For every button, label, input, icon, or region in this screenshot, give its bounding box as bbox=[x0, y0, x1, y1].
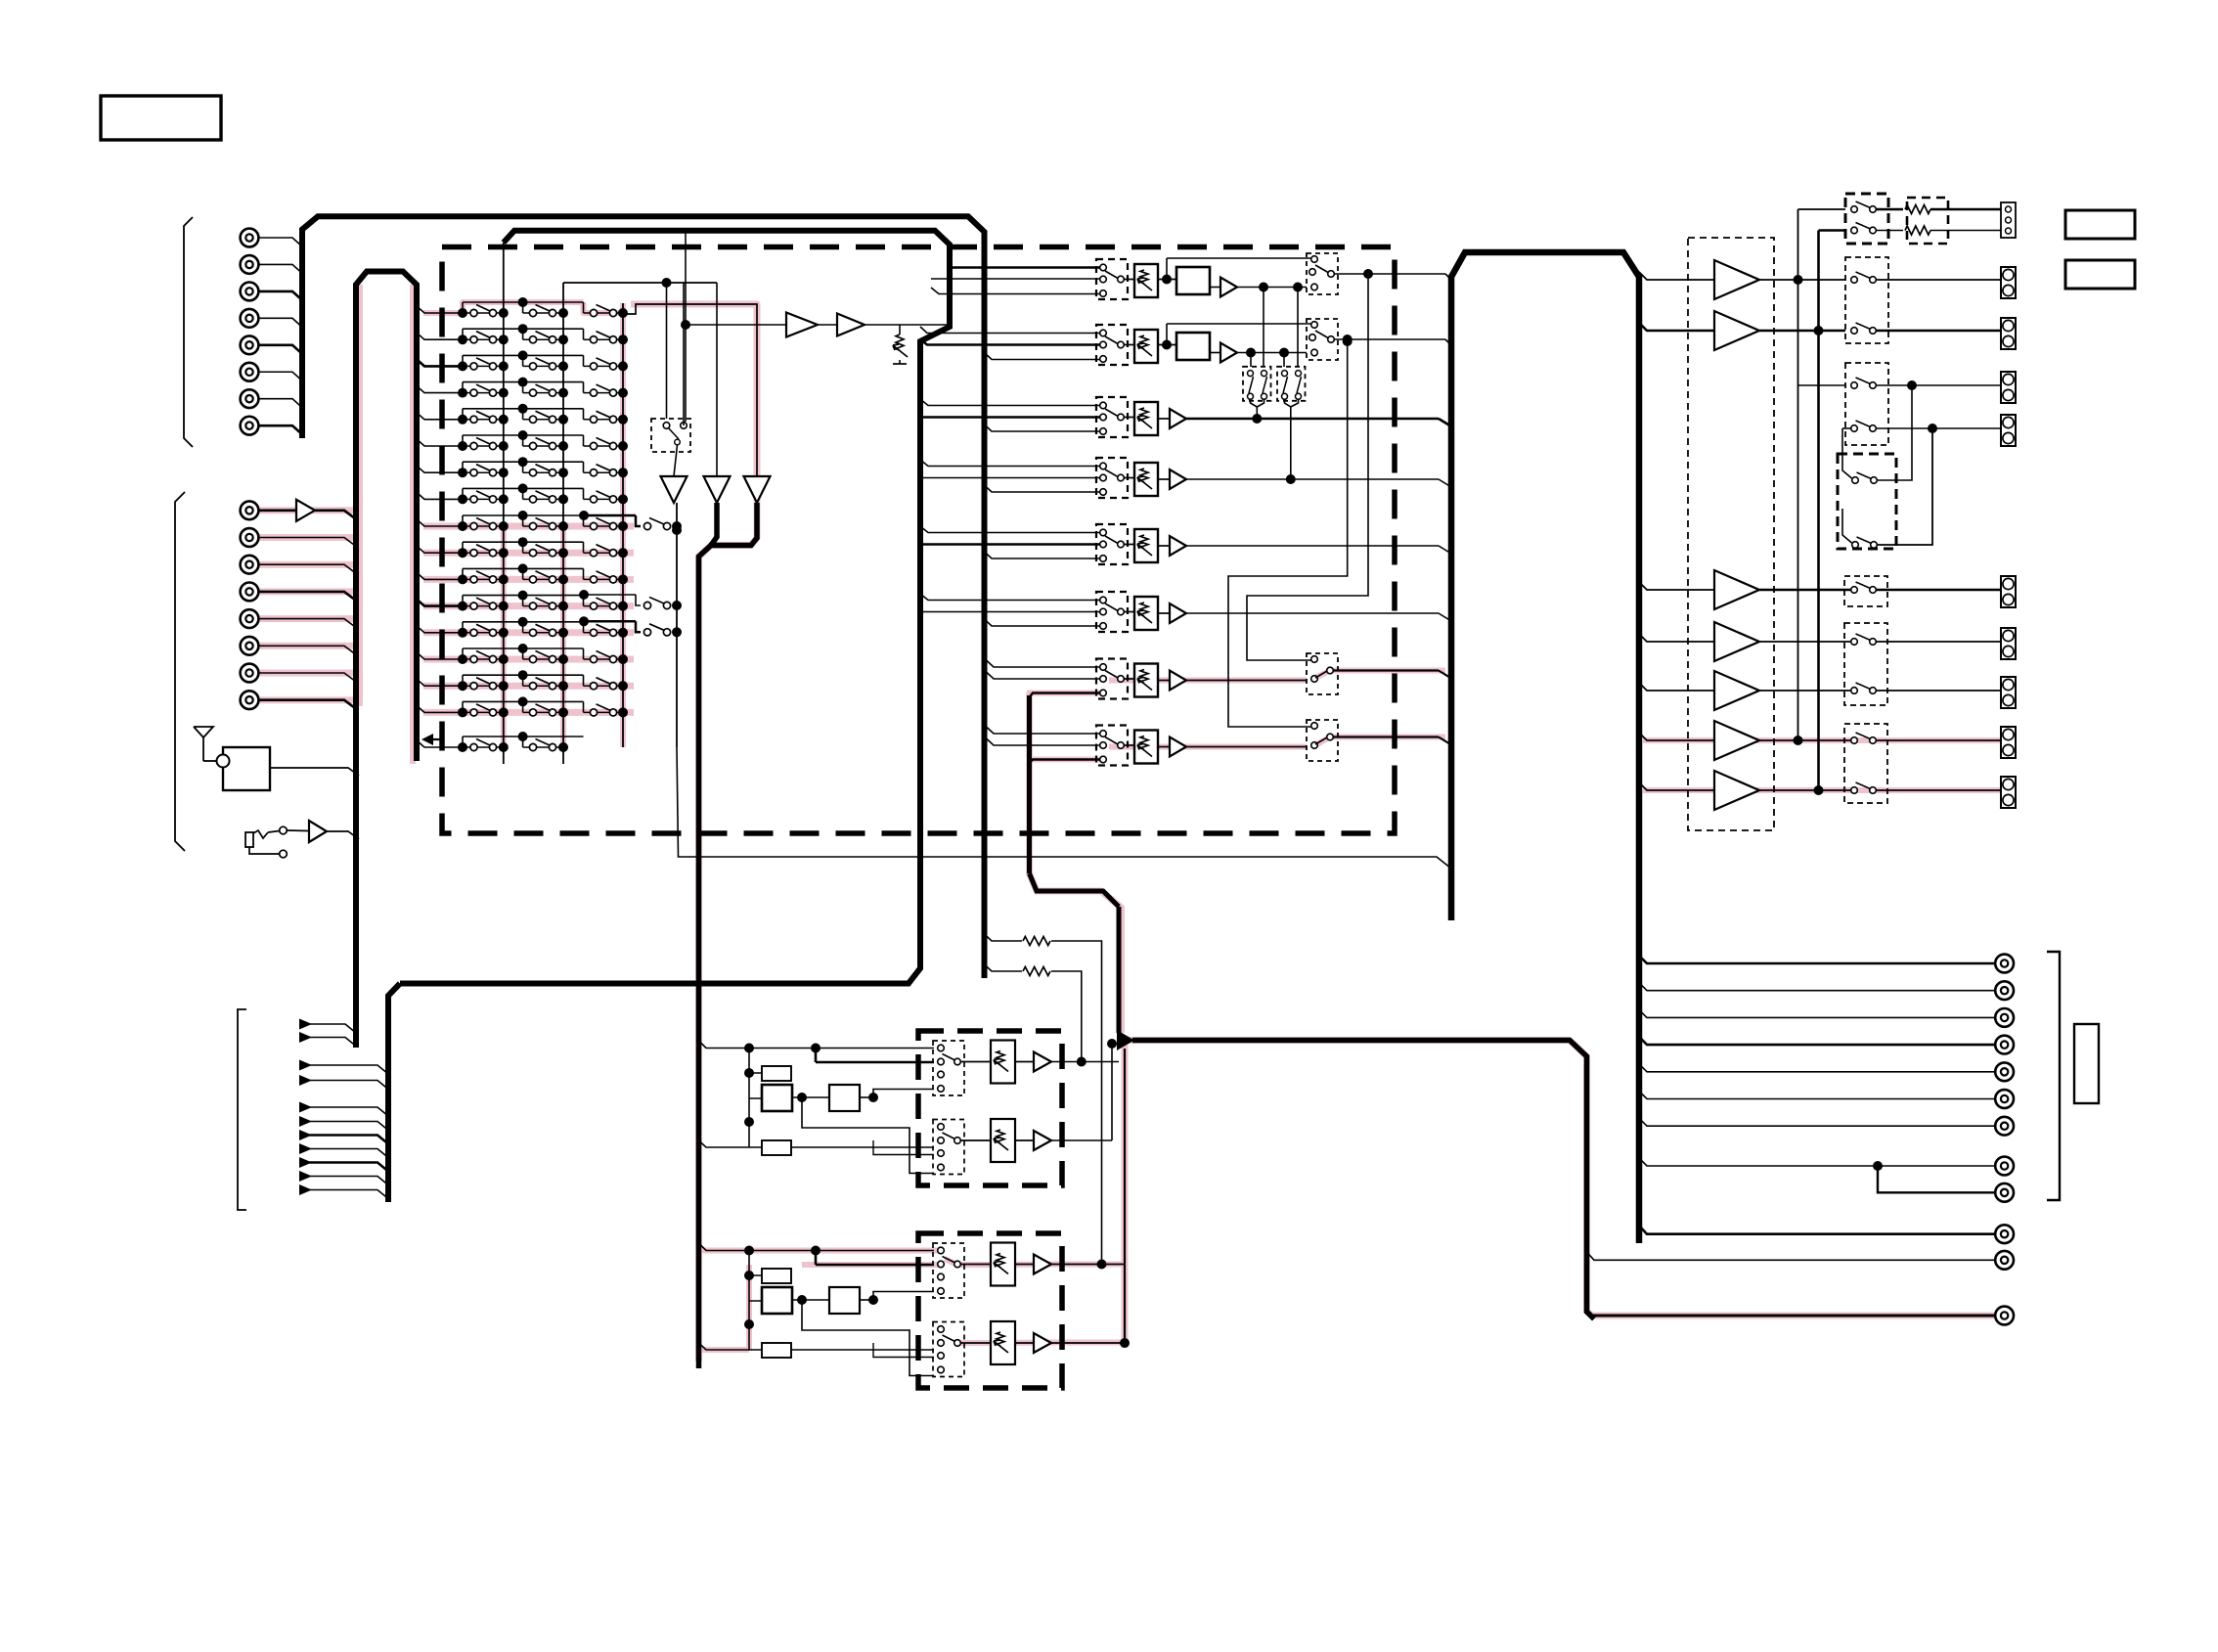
RCA output jack OUT1 bbox=[1995, 955, 2014, 973]
wire tone d bbox=[802, 1300, 934, 1376]
RCA output jack OUT8 bbox=[1995, 1157, 2014, 1176]
wire row2 low bbox=[985, 353, 1100, 360]
wire row2 hi bbox=[920, 327, 1100, 334]
speaker sw C1 bbox=[1851, 378, 1877, 388]
wire to pre terminal bbox=[1876, 739, 2001, 741]
speaker terminal zone 5 bbox=[2001, 777, 2016, 808]
tone out amp bbox=[1034, 1131, 1051, 1150]
wire amp2 out bbox=[1759, 330, 1845, 333]
tone net vertical bbox=[748, 1049, 750, 1148]
wire to spk sw b bbox=[1819, 229, 1846, 232]
speaker terminal D bbox=[2001, 415, 2016, 446]
dashed box: rec out matrix switch 2 bbox=[1277, 367, 1306, 401]
junction after volume bbox=[1162, 275, 1172, 285]
wire r2 to matrix sw bbox=[1250, 353, 1252, 368]
function switch box row 6 bbox=[1096, 592, 1128, 632]
function select line bbox=[299, 1075, 312, 1086]
bus zone merge horiz bbox=[709, 503, 757, 546]
pink highlighted signal path underlays bbox=[258, 285, 2001, 1362]
RCA output jack OUT11 bbox=[1995, 1251, 2014, 1270]
line out amp bbox=[1170, 603, 1186, 623]
function switch box row 3 bbox=[1096, 397, 1128, 437]
wire tap hi bbox=[920, 594, 1100, 601]
headphone amp bbox=[309, 821, 327, 842]
wire line out 6 bbox=[1639, 1092, 1995, 1099]
wire main out to zone sw R bbox=[1228, 341, 1348, 727]
wire tape bypass 1 bbox=[985, 934, 1023, 941]
RCA input jack IN2-1 bbox=[241, 501, 259, 519]
bus B thin riser from matrix column 1 bbox=[503, 243, 505, 303]
mode switch box row 1 bbox=[1307, 253, 1338, 294]
feedback wire bbox=[1167, 323, 1314, 325]
wire to matrix sw2 bbox=[1297, 288, 1299, 368]
wire zone to spine bbox=[1333, 669, 1439, 671]
wire tap mid bbox=[987, 739, 1100, 746]
volume resistor bbox=[1140, 469, 1148, 482]
muting switch lever bbox=[668, 427, 679, 439]
wire input2 5 to bus bbox=[259, 619, 357, 628]
volume pot row 3 bbox=[1134, 402, 1158, 435]
wire tone2 return up bbox=[1124, 1049, 1126, 1343]
wire input2 8 to bus bbox=[259, 700, 357, 709]
volume resistor bbox=[1140, 603, 1148, 616]
tone out amp bbox=[1034, 1052, 1051, 1072]
function select line bbox=[299, 1060, 312, 1071]
volume resistor bbox=[1140, 737, 1148, 750]
wire to pre terminal bbox=[1876, 589, 2001, 592]
wire input 5 to bus bbox=[259, 345, 303, 354]
power amp 1 bbox=[1714, 260, 1759, 299]
wire input2 7 to bus bbox=[259, 673, 357, 682]
wire matrix to line amp bbox=[686, 324, 786, 326]
wire tone c bbox=[873, 1292, 934, 1301]
power amp 3 bbox=[1714, 570, 1759, 609]
wire input2 6 to bus bbox=[259, 646, 357, 654]
wire phono in bbox=[259, 509, 297, 512]
processor block bbox=[1176, 267, 1210, 294]
volume pot row 8 bbox=[1134, 731, 1158, 764]
dashed box: series resistor block bbox=[1907, 198, 1948, 244]
wire out 10 bbox=[1639, 1226, 1995, 1234]
RCA input jack IN1-4 bbox=[241, 309, 259, 328]
volume resistor bbox=[1140, 408, 1148, 422]
wire tone main bbox=[816, 1264, 934, 1267]
wire line out 5 bbox=[1639, 1064, 1995, 1072]
dashed box: speaker switch B bbox=[1845, 257, 1888, 343]
selector matrix row 3 bbox=[417, 350, 628, 371]
3pin speaker terminal bbox=[2001, 202, 2016, 238]
RCA input jack IN1-2 bbox=[241, 255, 259, 274]
power amp 2 bbox=[1714, 311, 1759, 350]
tone input taps bbox=[699, 1041, 750, 1049]
AM antenna bbox=[194, 727, 213, 737]
RCA input jack IN2-3 bbox=[241, 556, 259, 574]
tone selector switch box row 1 bbox=[933, 1041, 964, 1095]
wire tap main bbox=[920, 416, 1100, 419]
RCA input jack IN2-4 bbox=[241, 583, 259, 602]
dashed box: pre-out switch bbox=[1844, 576, 1887, 606]
bus merge arrow bbox=[1117, 1030, 1134, 1050]
bus U input collector bbox=[356, 272, 417, 1049]
zone out amp bbox=[1170, 671, 1186, 691]
wire spine to amp 2 bbox=[1639, 323, 1714, 331]
wire R to speaker terminal bbox=[1876, 330, 2001, 333]
feedback wire bbox=[1167, 257, 1314, 259]
tone resistor block A bbox=[762, 1066, 791, 1081]
bus A (top source bus) bbox=[302, 216, 985, 978]
record line vertical bbox=[676, 503, 678, 747]
RCA input jack IN2-2 bbox=[241, 528, 259, 547]
speaker terminal L bbox=[2001, 267, 2016, 298]
wire tap hi bbox=[987, 661, 1100, 668]
power amp 6 bbox=[1714, 721, 1759, 760]
wire input 4 to bus bbox=[259, 318, 303, 327]
tone resistor block D bbox=[762, 1140, 791, 1155]
wire spine to amp 7 bbox=[1639, 782, 1714, 790]
bus spine (power feed) bbox=[1451, 252, 1639, 1243]
wire zone to spine bbox=[1333, 736, 1439, 737]
wire phones to bus bbox=[327, 831, 359, 839]
bus function collector bbox=[388, 984, 400, 1203]
function switch box row 5 bbox=[1096, 524, 1128, 564]
matrix column line 2 bbox=[562, 283, 564, 764]
RCA input jack IN1-1 bbox=[241, 229, 259, 247]
function select line bbox=[299, 1032, 312, 1043]
volume pot row 4 bbox=[1134, 463, 1158, 496]
phones switch contact a bbox=[280, 826, 288, 834]
tone selector switch box row 2 bbox=[933, 1120, 964, 1175]
line out amp bbox=[1170, 469, 1186, 489]
speaker matrix sw 2 bbox=[1852, 537, 1878, 548]
wire matrix up bbox=[1842, 428, 1852, 478]
matrix sw lever a bbox=[1283, 377, 1288, 393]
tone volume pot row 1 bbox=[991, 1041, 1015, 1084]
RCA input jack IN1-8 bbox=[241, 417, 259, 435]
wire matrix to rec buffer 3 bbox=[623, 304, 757, 476]
legend box small right bbox=[2074, 1024, 2099, 1103]
junction mode out bbox=[1343, 335, 1353, 344]
legend box (title) bbox=[101, 96, 221, 140]
wire row1 mid bbox=[931, 278, 1100, 280]
bus B (record/select bus) bbox=[400, 231, 950, 984]
selector matrix row 12 bbox=[417, 591, 628, 611]
volume pot row 2 bbox=[1134, 330, 1158, 363]
speaker relay A-R bbox=[1851, 223, 1877, 234]
headphone jack bbox=[245, 832, 253, 847]
power amp 4 bbox=[1714, 622, 1759, 661]
volume resistor bbox=[1140, 670, 1148, 684]
wire to terminal c bbox=[1876, 384, 2001, 386]
wire line out 2 bbox=[1639, 983, 1995, 991]
RCA output jack OUT4 bbox=[1995, 1036, 2014, 1054]
wire tone1 r2 up bbox=[1111, 1044, 1113, 1140]
selector matrix row 5 bbox=[417, 404, 628, 424]
wire out 11 bbox=[1587, 1252, 1996, 1260]
tone IC block C bbox=[829, 1085, 860, 1111]
wire input 3 to bus bbox=[259, 291, 303, 300]
wire volume out bbox=[1186, 612, 1439, 614]
wire input2 3 to bus bbox=[259, 564, 357, 573]
RCA input jack IN1-7 bbox=[241, 389, 259, 408]
speaker terminal zone 3 bbox=[2001, 677, 2016, 708]
matrix column line 3 bbox=[622, 303, 624, 747]
speaker terminal C bbox=[2001, 372, 2016, 403]
wire input 6 to bus bbox=[259, 372, 303, 380]
selector matrix row 6 bbox=[417, 430, 628, 451]
wire to mode switch bbox=[1237, 287, 1307, 289]
function select line bbox=[299, 1019, 312, 1030]
function switch box row 2 bbox=[1096, 325, 1128, 365]
phones switch contact b bbox=[280, 850, 288, 858]
selector matrix row 14 bbox=[417, 644, 628, 664]
resistor tape 1 bbox=[1023, 937, 1050, 946]
wire tap hi bbox=[920, 399, 1100, 406]
function select line bbox=[299, 1116, 312, 1127]
bus zone2 jog bbox=[1030, 873, 1120, 907]
dashed box: rec out matrix switch 1 bbox=[1243, 367, 1271, 401]
wire to pre terminal bbox=[1876, 641, 2001, 643]
RCA input jack IN1-5 bbox=[241, 335, 259, 354]
wire tap hi bbox=[920, 460, 1100, 467]
wire preamp out 2 bbox=[1759, 641, 1854, 643]
wire line out 4 bbox=[1639, 1037, 1995, 1045]
speaker sw C2 bbox=[1851, 421, 1877, 431]
wire tone main bbox=[816, 1061, 934, 1064]
wire volume out bbox=[1186, 478, 1439, 480]
wire bus to line amp / muting bbox=[685, 232, 687, 422]
speaker sw main L bbox=[1851, 272, 1877, 283]
wire to spk sw a bbox=[1798, 208, 1846, 210]
bus zone2 riser bbox=[1027, 695, 1032, 873]
matrix sw lever b bbox=[1297, 377, 1302, 393]
wire tone low bbox=[791, 1146, 934, 1148]
selector matrix row 1 bbox=[417, 297, 628, 318]
wire d down bbox=[1878, 428, 1933, 545]
wire to pre terminal bbox=[1876, 789, 2001, 791]
record select jog switch at y=646 bbox=[579, 616, 682, 637]
wire line out 1 bbox=[1639, 956, 1995, 963]
wire c down bbox=[1878, 385, 1913, 480]
wire to matrix sw bbox=[1263, 288, 1264, 368]
tone vol resistor bbox=[997, 1254, 1004, 1268]
tone IC block B bbox=[762, 1085, 792, 1111]
series resistor L bbox=[1905, 205, 1930, 214]
wire line amp 1 to 2 bbox=[818, 324, 837, 326]
wire zone line out (pink) bbox=[1590, 1315, 1995, 1317]
tone resistor block D bbox=[762, 1343, 791, 1358]
tone volume pot row 2 bbox=[991, 1119, 1015, 1162]
wire tap lo bbox=[985, 552, 1100, 558]
volume pot row 7 bbox=[1134, 664, 1158, 697]
function select line bbox=[299, 1130, 312, 1140]
wire to terminal R bbox=[1930, 230, 2001, 232]
legend box A bbox=[2065, 210, 2135, 239]
legend box B bbox=[2065, 260, 2135, 289]
function select line bbox=[299, 1171, 312, 1182]
record select jog switch at y=538 bbox=[579, 511, 682, 531]
wire input 7 to bus bbox=[259, 399, 303, 408]
wire tone c bbox=[873, 1090, 934, 1098]
bus zone feed (thick) bbox=[699, 503, 718, 1368]
RCA output jack OUT2 bbox=[1995, 981, 2014, 1000]
phono preamp amp bbox=[296, 500, 315, 521]
dashed box: power amplifier block bbox=[1688, 238, 1774, 830]
wire tap lo bbox=[985, 485, 1100, 492]
wire down to muting switch bbox=[666, 283, 668, 419]
wire record out to spine bbox=[677, 747, 1451, 869]
wire zone out bbox=[1186, 680, 1307, 682]
wire to pre terminal bbox=[1876, 690, 2001, 692]
record select jog switch at y=619 bbox=[579, 590, 682, 610]
wire volume zone down bbox=[1117, 907, 1122, 1033]
post amp bbox=[1220, 278, 1237, 297]
junction mode out bbox=[1363, 269, 1373, 279]
speaker terminal zone 1 bbox=[2001, 576, 2016, 607]
bracket input group 2 bbox=[175, 492, 185, 851]
wire out 9 bbox=[1878, 1166, 1995, 1192]
wire input 2 to bus bbox=[259, 264, 303, 273]
speaker sw main R bbox=[1851, 323, 1877, 334]
wire line out 7 bbox=[1639, 1118, 1995, 1126]
wire tap mid bbox=[987, 673, 1100, 680]
series resistor R bbox=[1905, 226, 1930, 235]
speaker relay A-L bbox=[1851, 201, 1877, 212]
wire mode out to spine bbox=[1334, 338, 1445, 340]
selector matrix row 10 bbox=[417, 537, 628, 558]
zone out amp bbox=[1170, 737, 1186, 757]
tone resistor block A bbox=[762, 1269, 791, 1283]
matrix column line 1 bbox=[503, 303, 505, 764]
wire spine to amp 5 bbox=[1639, 683, 1714, 691]
junction out 8 bbox=[1873, 1161, 1883, 1171]
dashed box: tone control group at 1054 bbox=[918, 1031, 1062, 1185]
line out amp bbox=[1170, 409, 1186, 428]
RCA output jack OUT5 bbox=[1995, 1062, 2014, 1081]
wire matrix sw 1 out bbox=[1251, 399, 1258, 419]
line out amp bbox=[1170, 536, 1186, 556]
selector matrix row 9 bbox=[417, 511, 628, 531]
wire muting to bus bbox=[683, 283, 685, 425]
direction arrow into matrix bbox=[421, 734, 433, 745]
wire preamp out 1 bbox=[1759, 589, 1854, 592]
tuner input circle bbox=[217, 755, 230, 768]
wire tone hi bbox=[749, 1048, 934, 1049]
volume pot row 5 bbox=[1134, 529, 1158, 562]
wire spine to amp 3 bbox=[1639, 582, 1714, 590]
function select line bbox=[299, 1102, 312, 1113]
selector matrix row 2 bbox=[417, 324, 628, 344]
wire input2 2 to bus bbox=[259, 538, 357, 547]
wire main out to zone sw L bbox=[1247, 274, 1368, 660]
RCA input jack IN2-8 bbox=[241, 691, 259, 709]
wire matrix up 2 bbox=[1842, 509, 1852, 543]
wire tap lo bbox=[985, 619, 1100, 626]
function switch box row 4 bbox=[1096, 458, 1128, 498]
dashed box: pre-out switch bbox=[1844, 623, 1887, 705]
RCA output jack OUT3 bbox=[1995, 1008, 2014, 1027]
RCA input jack IN2-7 bbox=[241, 664, 259, 683]
processor block bbox=[1176, 333, 1210, 360]
tone out amp bbox=[1034, 1255, 1051, 1274]
line amp 1 bbox=[786, 313, 818, 337]
feedback pot bbox=[896, 335, 904, 350]
dashed box: input selector / volume block bbox=[442, 247, 1395, 834]
wire input 8 to bus bbox=[259, 425, 303, 434]
wire spine to amp 4 bbox=[1639, 634, 1714, 642]
tone IC block B bbox=[762, 1287, 792, 1314]
wire tuner out to bus bbox=[270, 768, 359, 776]
wire preamp out 3 bbox=[1759, 690, 1854, 692]
wire r2 to matrix sw2 bbox=[1283, 353, 1285, 368]
wire line amp 2 out bbox=[865, 324, 950, 326]
dashed box: speaker matrix (thick) bbox=[1838, 454, 1896, 549]
wire tap hi bbox=[987, 728, 1100, 735]
RCA output jack OUT10 bbox=[1995, 1225, 2014, 1243]
function select line bbox=[299, 1157, 312, 1168]
wire tone d bbox=[802, 1097, 934, 1174]
tone volume pot row 2 bbox=[991, 1321, 1015, 1364]
tone group 1 outputs bbox=[1051, 1061, 1119, 1063]
zone mode switch box row 7 bbox=[1307, 653, 1338, 694]
wire input2 4 to bus bbox=[259, 592, 357, 601]
tone out amp bbox=[1034, 1333, 1051, 1353]
selector matrix row 13 bbox=[417, 617, 628, 638]
junction after volume bbox=[1162, 340, 1172, 350]
dashed box: pre-out switch bbox=[1844, 724, 1887, 803]
RCA input jack IN1-3 bbox=[241, 283, 259, 301]
tone vol resistor bbox=[997, 1332, 1004, 1346]
volume resistor bbox=[1140, 270, 1148, 284]
bus zone output bbox=[1132, 1041, 1594, 1319]
wire volume out bbox=[1186, 545, 1439, 547]
wire line out 8 bbox=[1639, 1158, 1995, 1166]
selector matrix row 17 bbox=[417, 732, 584, 752]
bracket function switches bbox=[238, 1009, 246, 1210]
rec buffer amp D3 bbox=[744, 476, 771, 503]
power amp 7 bbox=[1714, 771, 1759, 810]
wire tuner L to selector bbox=[950, 266, 1100, 269]
matrix sw lever a bbox=[1249, 377, 1254, 393]
wire zone R in (pink) bbox=[1030, 760, 1100, 764]
AM loop / tuner box bbox=[223, 747, 270, 790]
wire tape bypass 2 bbox=[985, 964, 1023, 971]
dashed box: tone control group at 1261 bbox=[918, 1233, 1062, 1388]
wire preamp out 4 bbox=[1759, 739, 1854, 741]
dashed box: speaker switch A (thick) bbox=[1845, 194, 1888, 244]
wire tone hi bbox=[749, 1250, 934, 1252]
wire amp2 to surround bus 2 bbox=[1817, 331, 1820, 790]
matrix sw lever b bbox=[1263, 377, 1267, 393]
wire to rec buffer 2 bbox=[716, 283, 718, 476]
RCA input jack IN2-5 bbox=[241, 609, 259, 628]
selector matrix row 11 bbox=[417, 563, 628, 584]
function select line bbox=[299, 1143, 312, 1154]
wire volume out bbox=[1186, 418, 1439, 421]
RCA input jack IN2-6 bbox=[241, 637, 259, 655]
wire tone e bbox=[873, 1343, 934, 1358]
tone selector switch box row 1 bbox=[933, 1243, 964, 1298]
wire tap main bbox=[920, 477, 1100, 479]
RCA output jack OUT9 bbox=[1995, 1183, 2014, 1202]
volume pot row 1 bbox=[1134, 264, 1158, 297]
bracket input group 1 bbox=[184, 217, 193, 447]
resistor tape 2 bbox=[1023, 967, 1050, 976]
tone vol resistor bbox=[997, 1130, 1004, 1143]
speaker terminal R bbox=[2001, 318, 2016, 349]
RCA output jack OUT7 bbox=[1995, 1117, 2014, 1136]
volume resistor bbox=[1140, 335, 1148, 349]
speaker terminal zone 4 bbox=[2001, 727, 2016, 758]
